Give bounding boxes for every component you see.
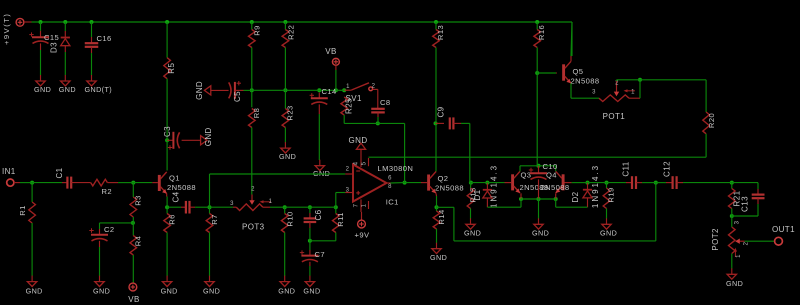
- svg-text:GND: GND: [161, 287, 178, 296]
- svg-text:GND: GND: [279, 152, 296, 161]
- capacitor C8: [371, 89, 390, 123]
- wire POT3 to R10: [263, 206, 285, 208]
- svg-text:3: 3: [592, 90, 596, 96]
- wire mid VB net: [252, 89, 344, 91]
- resistor R25: [341, 97, 354, 115]
- svg-text:Q4: Q4: [546, 171, 557, 180]
- wire C9 to R15 junction: [470, 123, 471, 182]
- wire POT1 wiper net: [617, 80, 641, 81]
- svg-text:1N914.3: 1N914.3: [591, 164, 600, 208]
- svg-text:2: 2: [372, 84, 376, 90]
- capacitor C1: [55, 167, 71, 188]
- wire R13 to Q2 collector: [435, 48, 437, 172]
- potentiometer POT3: [230, 187, 273, 232]
- resistor R15: [467, 183, 477, 219]
- wire R19 to C11: [607, 182, 627, 184]
- capacitor C9: [436, 106, 470, 129]
- resistor R20: [703, 112, 716, 134]
- svg-text:Q5: Q5: [573, 67, 584, 76]
- svg-text:+9V(T): +9V(T): [2, 13, 11, 45]
- wire R23 to ground: [284, 128, 286, 143]
- svg-text:C12: C12: [663, 161, 672, 177]
- ground GND (R23): [279, 142, 296, 161]
- svg-text:C9: C9: [437, 106, 446, 117]
- wire base node to Q5: [537, 72, 556, 74]
- capacitor C16: [85, 22, 112, 75]
- ground GND (R14): [430, 243, 447, 263]
- svg-text:3: 3: [230, 201, 234, 207]
- wire emitter node to ground: [538, 199, 540, 219]
- svg-text:2N5088: 2N5088: [571, 77, 600, 86]
- capacitor C12: [663, 161, 732, 189]
- svg-text:Q1: Q1: [169, 174, 180, 183]
- transistor Q2 2N5088: [421, 172, 464, 194]
- svg-text:8: 8: [388, 184, 392, 190]
- ground GND (C15): [34, 75, 51, 94]
- wire base node down to C10 node: [537, 73, 538, 166]
- wire IC1 out to Q2 base: [405, 182, 421, 184]
- svg-text:2: 2: [615, 81, 619, 87]
- ground GND(T): [85, 75, 113, 94]
- wire feedback: [437, 183, 656, 241]
- supply VB (top): [325, 47, 339, 90]
- svg-text:GND: GND: [34, 85, 51, 94]
- svg-text:IC1: IC1: [386, 197, 399, 206]
- svg-text:R20: R20: [707, 113, 716, 128]
- capacitor C2: [89, 225, 114, 276]
- svg-text:GND: GND: [726, 279, 743, 288]
- svg-text:GND: GND: [93, 287, 110, 296]
- wire POT2 wiper to OUT1: [745, 240, 775, 242]
- svg-text:GND: GND: [59, 85, 76, 94]
- wire C11 C12 node: [656, 182, 666, 184]
- wire R22 to R23: [284, 48, 286, 109]
- svg-text:POT3: POT3: [242, 223, 265, 232]
- ground GND (C14): [313, 160, 330, 178]
- svg-text:C14: C14: [322, 87, 337, 96]
- svg-text:1: 1: [631, 90, 635, 96]
- svg-text:R19: R19: [607, 187, 616, 202]
- switch SV1: [344, 83, 378, 103]
- ground GND (IC1 pin4): [349, 136, 368, 149]
- transistor Q4 2N5088: [541, 171, 572, 194]
- resistor R10: [281, 207, 294, 276]
- resistor R14: [433, 207, 446, 243]
- svg-text:2: 2: [346, 167, 350, 173]
- ground GND (R6): [161, 276, 178, 296]
- svg-text:C6: C6: [314, 209, 323, 220]
- ground GND (POT2): [726, 268, 743, 288]
- wire C8 bottom to IC1 output: [378, 123, 405, 182]
- svg-text:OUT1: OUT1: [772, 225, 795, 234]
- ground GND (C5): [195, 81, 211, 100]
- wire Q4 collector up: [539, 166, 556, 172]
- supply +9V(T): [2, 13, 24, 45]
- svg-text:5: 5: [361, 161, 367, 165]
- svg-text:GND(T): GND(T): [85, 85, 113, 94]
- svg-text:R6: R6: [167, 214, 176, 225]
- svg-text:R13: R13: [436, 25, 445, 40]
- svg-text:GND: GND: [195, 81, 204, 100]
- ground GND (R10): [278, 276, 295, 296]
- wire R9 to junction: [251, 48, 253, 91]
- resistor R5: [164, 22, 176, 79]
- svg-text:R23: R23: [285, 105, 294, 120]
- svg-text:D1: D1: [473, 189, 482, 200]
- svg-text:GND: GND: [26, 287, 43, 296]
- svg-text:C2: C2: [104, 225, 115, 234]
- ground GND (C7): [303, 276, 320, 296]
- capacitor C5: [211, 81, 252, 102]
- svg-text:2N5088: 2N5088: [541, 183, 570, 192]
- svg-text:GND: GND: [203, 287, 220, 296]
- potentiometer POT1: [592, 81, 635, 122]
- supply +9V (IC1): [355, 220, 370, 239]
- capacitor C14: [310, 87, 337, 160]
- transistor Q1 2N5088: [152, 172, 196, 194]
- svg-text:C1: C1: [55, 167, 64, 178]
- svg-text:3: 3: [346, 188, 350, 194]
- wire IC1 output: [391, 182, 405, 184]
- transistor Q3 2N5088: [505, 171, 549, 194]
- ground GND (R7): [203, 276, 220, 296]
- svg-text:R14: R14: [437, 209, 446, 224]
- wire POT2 to ground: [731, 254, 733, 269]
- diode D3: [50, 22, 70, 75]
- svg-text:GND: GND: [278, 287, 295, 296]
- resistor R23: [282, 105, 294, 127]
- svg-text:R4: R4: [134, 236, 143, 247]
- svg-text:R5: R5: [167, 63, 176, 74]
- svg-text:POT1: POT1: [603, 112, 626, 121]
- resistor R21: [729, 183, 742, 216]
- wire R3R4 to C2: [100, 223, 134, 229]
- resistor R4: [130, 223, 143, 283]
- svg-text:GND: GND: [532, 229, 549, 238]
- svg-text:1N914.3: 1N914.3: [490, 164, 499, 208]
- svg-text:R22: R22: [287, 25, 296, 40]
- ground GND (Q3 Q4): [532, 218, 549, 237]
- wire +9V rail: [24, 21, 572, 23]
- svg-text:R11: R11: [336, 212, 345, 227]
- svg-text:VB: VB: [128, 295, 139, 304]
- wire D2 bottom jog: [556, 198, 588, 207]
- resistor R13: [433, 22, 445, 48]
- wire R7 node to IC1 pin2: [210, 174, 346, 207]
- svg-text:7: 7: [354, 203, 360, 207]
- capacitor C7: [300, 241, 325, 276]
- svg-text:C13: C13: [741, 196, 750, 212]
- wire R25 bottom: [344, 115, 378, 123]
- svg-text:R25: R25: [345, 98, 354, 114]
- resistor R19: [603, 183, 615, 219]
- transistor Q5 2N5088: [556, 22, 599, 86]
- wire row2: [285, 206, 336, 208]
- ground GND (C3): [201, 127, 213, 146]
- svg-text:Q3: Q3: [521, 171, 532, 180]
- wire R5 to Q1 collector: [166, 79, 168, 171]
- svg-text:C15: C15: [44, 33, 59, 42]
- wire Q5 emitter to POT1: [571, 83, 599, 98]
- svg-text:R10: R10: [285, 211, 294, 226]
- resistor R11: [333, 207, 346, 232]
- wire R8 to POT3 wiper: [251, 128, 253, 195]
- resistor R9: [249, 22, 262, 48]
- svg-text:C16: C16: [97, 34, 112, 43]
- wire Q4 base to D2: [572, 182, 588, 184]
- svg-text:D3: D3: [50, 42, 59, 53]
- svg-text:4: 4: [354, 161, 360, 165]
- svg-text:GND: GND: [349, 136, 368, 145]
- svg-text:+9V: +9V: [355, 231, 370, 240]
- wire R11 node to IC1 pin3: [336, 193, 346, 208]
- capacitor C6: [304, 207, 323, 241]
- wire R7 node to POT3: [210, 206, 234, 208]
- svg-text:C8: C8: [380, 98, 391, 107]
- diode D2 1N914.3: [571, 164, 600, 208]
- svg-text:1: 1: [346, 84, 350, 90]
- wire R15 node to D1: [471, 182, 488, 184]
- supply VB (bottom): [128, 283, 139, 304]
- resistor R16: [534, 22, 546, 48]
- wire R11 bottom: [310, 233, 336, 241]
- capacitor C15: [29, 22, 59, 75]
- svg-text:POT2: POT2: [711, 228, 720, 251]
- svg-text:C5: C5: [233, 91, 242, 102]
- wire R2 to Q1 base: [133, 182, 152, 184]
- potentiometer POT2: [711, 216, 750, 258]
- pin OUT1: [772, 225, 795, 245]
- svg-text:2: 2: [251, 187, 255, 193]
- wire POT1 to R20: [640, 80, 706, 112]
- svg-text:C7: C7: [315, 250, 326, 259]
- svg-text:Q2: Q2: [438, 174, 449, 183]
- svg-text:2N5088: 2N5088: [167, 183, 196, 192]
- diode D1 1N914.3: [473, 164, 499, 208]
- capacitor C11: [622, 161, 656, 189]
- wire R20 to IC1 pin5: [369, 134, 707, 157]
- wire R16 to base node: [536, 48, 538, 74]
- svg-text:C3: C3: [163, 126, 172, 137]
- wire D1 bottom jog: [487, 198, 521, 207]
- svg-text:R8: R8: [252, 108, 261, 119]
- wire Q1 emitter down: [166, 194, 168, 208]
- svg-text:LM3080N: LM3080N: [378, 164, 414, 173]
- ground GND (D3): [59, 75, 76, 94]
- svg-text:R7: R7: [210, 214, 219, 225]
- svg-text:C11: C11: [622, 161, 631, 176]
- capacitor C10: [529, 162, 558, 199]
- svg-text:GND: GND: [430, 253, 447, 262]
- wire emitter row: [521, 193, 556, 199]
- svg-text:2: 2: [744, 241, 750, 245]
- svg-text:IN1: IN1: [2, 167, 16, 176]
- wire D2 node to R19: [588, 182, 607, 184]
- svg-text:6: 6: [388, 176, 392, 182]
- svg-text:3: 3: [735, 220, 741, 224]
- resistor R8: [249, 90, 261, 127]
- svg-text:1: 1: [736, 254, 742, 258]
- svg-text:R3: R3: [134, 195, 143, 206]
- svg-text:C10: C10: [543, 162, 558, 171]
- ground GND (C2): [93, 276, 110, 296]
- svg-text:2N5088: 2N5088: [435, 183, 464, 192]
- resistor R3: [130, 183, 143, 223]
- pin IN1: [2, 167, 32, 186]
- resistor R1: [18, 183, 35, 276]
- svg-text:1: 1: [269, 199, 273, 205]
- wire rail corner to Q5 collector: [571, 22, 573, 56]
- resistor R22: [282, 22, 295, 48]
- ground GND (R15): [464, 218, 481, 237]
- capacitor C3: [163, 126, 201, 150]
- wire Q3 collector up: [520, 166, 539, 172]
- capacitor C4: [167, 191, 209, 213]
- svg-text:D2: D2: [571, 191, 580, 202]
- ground GND (R19): [600, 218, 617, 237]
- svg-text:1: 1: [361, 203, 367, 207]
- svg-text:R2: R2: [102, 187, 113, 196]
- svg-text:R16: R16: [537, 25, 546, 40]
- op-amp IC1 LM3080N: [345, 149, 413, 220]
- svg-text:R1: R1: [18, 205, 27, 216]
- wire D1 node to Q3 base: [487, 182, 504, 184]
- svg-text:VB: VB: [325, 47, 336, 56]
- svg-text:GND: GND: [204, 127, 213, 146]
- capacitor C13: [732, 183, 765, 216]
- wire Q2 emitter: [435, 193, 438, 207]
- svg-text:GND: GND: [464, 229, 481, 238]
- svg-text:GND: GND: [600, 229, 617, 238]
- ground GND (R1): [26, 276, 43, 296]
- svg-text:GND: GND: [303, 287, 320, 296]
- resistor R2: [71, 179, 133, 196]
- resistor R7: [206, 207, 219, 276]
- resistor R6: [164, 207, 177, 276]
- svg-text:C4: C4: [172, 191, 181, 202]
- svg-text:R9: R9: [252, 25, 261, 36]
- wire input node: [32, 182, 62, 184]
- wire POT1 pin1 up: [629, 80, 640, 98]
